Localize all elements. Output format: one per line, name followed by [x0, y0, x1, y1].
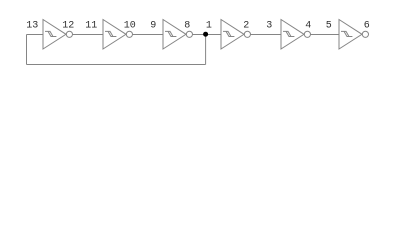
inverter gate F (pins 5-6) — [339, 20, 369, 50]
svg-text:4: 4 — [305, 21, 311, 32]
svg-text:2: 2 — [243, 21, 249, 32]
wire gate C output to gate D input — [193, 34, 222, 36]
wire input to gate A — [27, 34, 44, 36]
wire feedback vertical from node down — [205, 35, 207, 65]
svg-text:13: 13 — [26, 21, 38, 32]
wire gate E output to gate F input — [311, 34, 340, 36]
svg-text:11: 11 — [85, 21, 97, 32]
svg-text:5: 5 — [326, 21, 332, 32]
svg-text:1: 1 — [206, 21, 212, 32]
inverter gate D (pins 1-2) — [221, 20, 250, 50]
inverter gate C (pins 9-8) — [163, 20, 192, 50]
inverter gate E (pins 3-4) — [281, 20, 311, 50]
inverter gate A (pins 13-12) — [43, 20, 73, 50]
wire feedback left vertical up to gate A input — [26, 35, 28, 65]
svg-text:9: 9 — [150, 21, 156, 32]
inverter gate B (pins 11-10) — [103, 20, 133, 50]
wire gate D output to gate E input — [251, 34, 282, 36]
wire gate B output to gate C input — [133, 34, 164, 36]
svg-text:12: 12 — [62, 21, 74, 32]
junction node dot — [203, 32, 208, 37]
svg-text:6: 6 — [364, 21, 370, 32]
svg-text:10: 10 — [124, 21, 136, 32]
svg-text:8: 8 — [184, 21, 190, 32]
wire gate A output to gate B input — [73, 34, 104, 36]
wire feedback bottom horizontal — [27, 64, 206, 66]
svg-text:3: 3 — [266, 21, 272, 32]
